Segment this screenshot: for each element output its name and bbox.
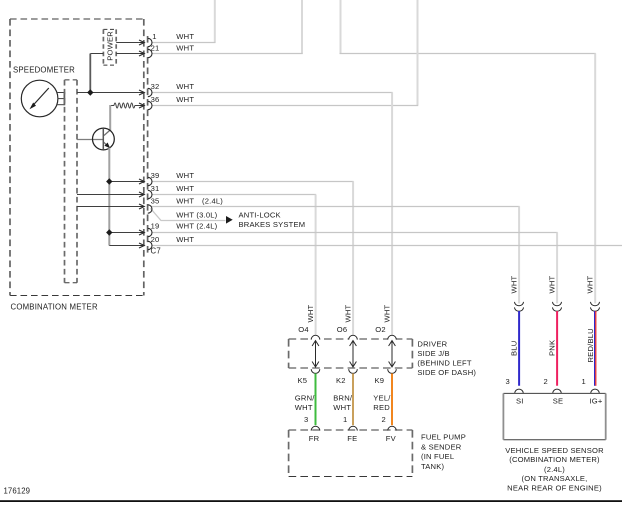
- svg-text:20: 20: [151, 235, 160, 244]
- wire WHT 3.0L branch to anti-lock brakes (gray): [150, 208, 225, 220]
- svg-text:WHT: WHT: [176, 32, 194, 41]
- svg-text:SIDE J/B: SIDE J/B: [417, 349, 449, 358]
- svg-text:WHT: WHT: [176, 235, 194, 244]
- svg-text:21: 21: [151, 44, 160, 53]
- wire GRN/WHT: [315, 373, 317, 425]
- wire node B to pin 39: [109, 181, 140, 183]
- svg-text:SPEEDOMETER: SPEEDOMETER: [13, 66, 75, 75]
- svg-text:WHT: WHT: [547, 275, 556, 293]
- svg-text:VEHICLE SPEED SENSOR: VEHICLE SPEED SENSOR: [505, 446, 604, 455]
- transistor Q1: [77, 130, 110, 148]
- driver side J/B dashed box: [289, 339, 413, 368]
- J/B connector arcs O4: [311, 335, 320, 339]
- svg-text:NEAR REAR OF ENGINE): NEAR REAR OF ENGINE): [507, 483, 602, 492]
- wire BRN/WHT: [352, 373, 354, 425]
- svg-text:1: 1: [582, 377, 586, 386]
- wire BLU: [518, 311, 520, 386]
- wire POWER to pin 1: [116, 42, 140, 44]
- wire POWER branch down to node A: [90, 54, 103, 93]
- J/B internal arrow O6: [350, 341, 357, 367]
- wire RED/BLU: [595, 311, 596, 386]
- svg-text:RED: RED: [373, 403, 390, 412]
- svg-text:WHT: WHT: [306, 304, 315, 322]
- svg-text:FR: FR: [309, 434, 320, 443]
- svg-text:WHT (2.4L): WHT (2.4L): [176, 222, 217, 231]
- transistor emitter arrowhead: [104, 143, 110, 149]
- svg-text:2: 2: [544, 377, 548, 386]
- svg-text:C7: C7: [151, 246, 161, 255]
- svg-text:POWER: POWER: [105, 31, 114, 61]
- svg-text:3: 3: [304, 415, 308, 424]
- pin 20: [139, 241, 152, 249]
- svg-text:WHT: WHT: [176, 171, 194, 180]
- POWER bracket (dashed): [103, 29, 116, 65]
- svg-text:O4: O4: [298, 325, 309, 334]
- wire pin 20 to right edge (gray): [152, 245, 622, 247]
- wire from top feeder to pin 21 (gray): [152, 0, 303, 54]
- node A junction dot: [87, 89, 93, 95]
- connector C7 dashed line: [147, 36, 149, 253]
- pin 39: [139, 177, 152, 185]
- wire pin 19 to speed sensor SE (gray): [152, 233, 558, 304]
- svg-text:WHT: WHT: [295, 403, 313, 412]
- wire IG+ feeder from top to vehicle speed sensor (gray): [340, 0, 596, 303]
- node B junction dot: [106, 178, 112, 184]
- pin 19: [139, 228, 152, 236]
- svg-text:SIDE OF DASH): SIDE OF DASH): [417, 368, 476, 377]
- pin 32: [139, 88, 152, 96]
- wire pin 32 to junction O2 (gray): [152, 93, 393, 335]
- svg-text:3: 3: [506, 377, 510, 386]
- combination meter dashed box: [10, 19, 144, 296]
- svg-text:K9: K9: [375, 376, 385, 385]
- speed sensor connector arcs IG+: [591, 389, 600, 393]
- fuel pump connector arcs FV: [388, 426, 397, 430]
- J/B internal arrow O2: [389, 341, 396, 367]
- inline connector SI: [515, 302, 524, 311]
- inline connector SE: [553, 302, 562, 311]
- svg-text:35: 35: [151, 197, 160, 206]
- wire pin 31 to junction O4 (gray): [152, 195, 317, 335]
- wire POWER to pin 21: [116, 53, 140, 55]
- speedometer gauge: [21, 80, 58, 117]
- wire emitter down to pin 20: [109, 148, 140, 246]
- svg-text:19: 19: [151, 222, 160, 231]
- svg-text:BLU: BLU: [509, 341, 518, 356]
- fuel pump connector arcs FR: [311, 426, 320, 430]
- J/B connector arcs O2: [388, 335, 397, 339]
- wire node C to pin 19: [109, 232, 140, 234]
- J/B bottom arcs K9: [388, 369, 397, 373]
- svg-text:COMBINATION METER: COMBINATION METER: [11, 302, 98, 311]
- svg-text:O2: O2: [375, 325, 386, 334]
- svg-text:PNK: PNK: [547, 340, 556, 356]
- svg-text:GRN/: GRN/: [295, 394, 315, 403]
- wire PNK: [556, 311, 558, 386]
- svg-text:K5: K5: [298, 376, 308, 385]
- svg-text:FE: FE: [347, 434, 357, 443]
- fuel pump dashed box: [289, 430, 413, 477]
- svg-text:YEL/: YEL/: [373, 394, 391, 403]
- svg-text:WHT: WHT: [333, 403, 351, 412]
- bottom border: [0, 500, 622, 502]
- wire resistor down to transistor collector: [109, 105, 111, 131]
- svg-text:FV: FV: [386, 434, 397, 443]
- J/B bottom arcs K2: [349, 369, 358, 373]
- pin 35: [139, 204, 152, 213]
- svg-text:(IN FUEL: (IN FUEL: [421, 452, 454, 461]
- J/B internal arrow O4: [312, 341, 319, 367]
- svg-text:WHT: WHT: [176, 82, 194, 91]
- svg-text:WHT: WHT: [176, 44, 194, 53]
- pin 36: [139, 101, 152, 109]
- svg-text:BRAKES SYSTEM: BRAKES SYSTEM: [239, 220, 306, 229]
- svg-text:WHT: WHT: [509, 275, 518, 293]
- svg-text:2: 2: [382, 415, 386, 424]
- inline connector IG+: [591, 302, 600, 311]
- pin 1: [139, 38, 152, 46]
- svg-text:SE: SE: [553, 396, 564, 405]
- svg-text:& SENDER: & SENDER: [421, 442, 462, 451]
- svg-text:WHT: WHT: [176, 197, 194, 206]
- vehicle speed sensor box: [503, 393, 605, 439]
- wire from top feeder to pin 36 (gray): [152, 0, 419, 106]
- anti-lock brakes system arrow: [226, 216, 233, 224]
- speedometer needle arrowhead: [30, 103, 37, 110]
- svg-text:BRN/: BRN/: [333, 394, 353, 403]
- svg-text:1: 1: [152, 32, 156, 41]
- node C junction dot: [106, 229, 112, 235]
- svg-text:TANK): TANK): [421, 462, 444, 471]
- svg-text:(ON TRANSAXLE,: (ON TRANSAXLE,: [522, 474, 588, 483]
- svg-text:WHT: WHT: [343, 304, 352, 322]
- wire speedometer to pin 31: [77, 194, 140, 196]
- svg-text:32: 32: [151, 82, 160, 91]
- wire YEL/RED: [391, 373, 393, 425]
- svg-text:K2: K2: [336, 376, 346, 385]
- wire pin 35 to speed sensor SI (gray): [152, 207, 520, 304]
- svg-text:WHT: WHT: [176, 95, 194, 104]
- svg-text:ANTI-LOCK: ANTI-LOCK: [239, 211, 281, 220]
- svg-text:WHT: WHT: [585, 275, 594, 293]
- svg-text:WHT (3.0L): WHT (3.0L): [176, 210, 217, 219]
- fuel pump connector arcs FE: [349, 426, 358, 430]
- svg-text:(BEHIND LEFT: (BEHIND LEFT: [417, 358, 471, 367]
- speedometer sub-box (dashed): [65, 80, 78, 283]
- svg-text:(2.4L): (2.4L): [544, 465, 565, 474]
- svg-text:36: 36: [151, 95, 160, 104]
- svg-text:(COMBINATION METER): (COMBINATION METER): [509, 455, 600, 464]
- pin 31: [139, 190, 152, 198]
- svg-text:WHT: WHT: [382, 304, 391, 322]
- svg-text:176129: 176129: [4, 487, 31, 496]
- svg-text:31: 31: [151, 184, 160, 193]
- speed sensor connector arcs SE: [553, 389, 562, 393]
- svg-text:RED/BLU: RED/BLU: [586, 328, 595, 362]
- svg-text:IG+: IG+: [590, 396, 603, 405]
- svg-text:WHT: WHT: [176, 184, 194, 193]
- wire from top feeder to pin 1 (gray): [152, 0, 216, 43]
- J/B connector arcs O6: [349, 335, 358, 339]
- svg-text:FUEL PUMP: FUEL PUMP: [421, 433, 466, 442]
- svg-text:DRIVER: DRIVER: [417, 339, 447, 348]
- svg-text:1: 1: [343, 415, 347, 424]
- pin 21: [139, 49, 152, 57]
- wire speedometer to pin 35: [77, 206, 140, 208]
- J/B bottom arcs K5: [311, 369, 320, 373]
- wire pin 39 to junction O6 (gray): [152, 182, 354, 335]
- resistor R1 (coil) wire to pin 36: [110, 103, 140, 108]
- svg-text:O6: O6: [337, 325, 348, 334]
- svg-text:SI: SI: [516, 396, 524, 405]
- wire speedometer to pin 32: [77, 92, 140, 94]
- speed sensor connector arcs SI: [515, 389, 524, 393]
- svg-text:(2.4L): (2.4L): [202, 197, 223, 206]
- svg-text:39: 39: [151, 171, 160, 180]
